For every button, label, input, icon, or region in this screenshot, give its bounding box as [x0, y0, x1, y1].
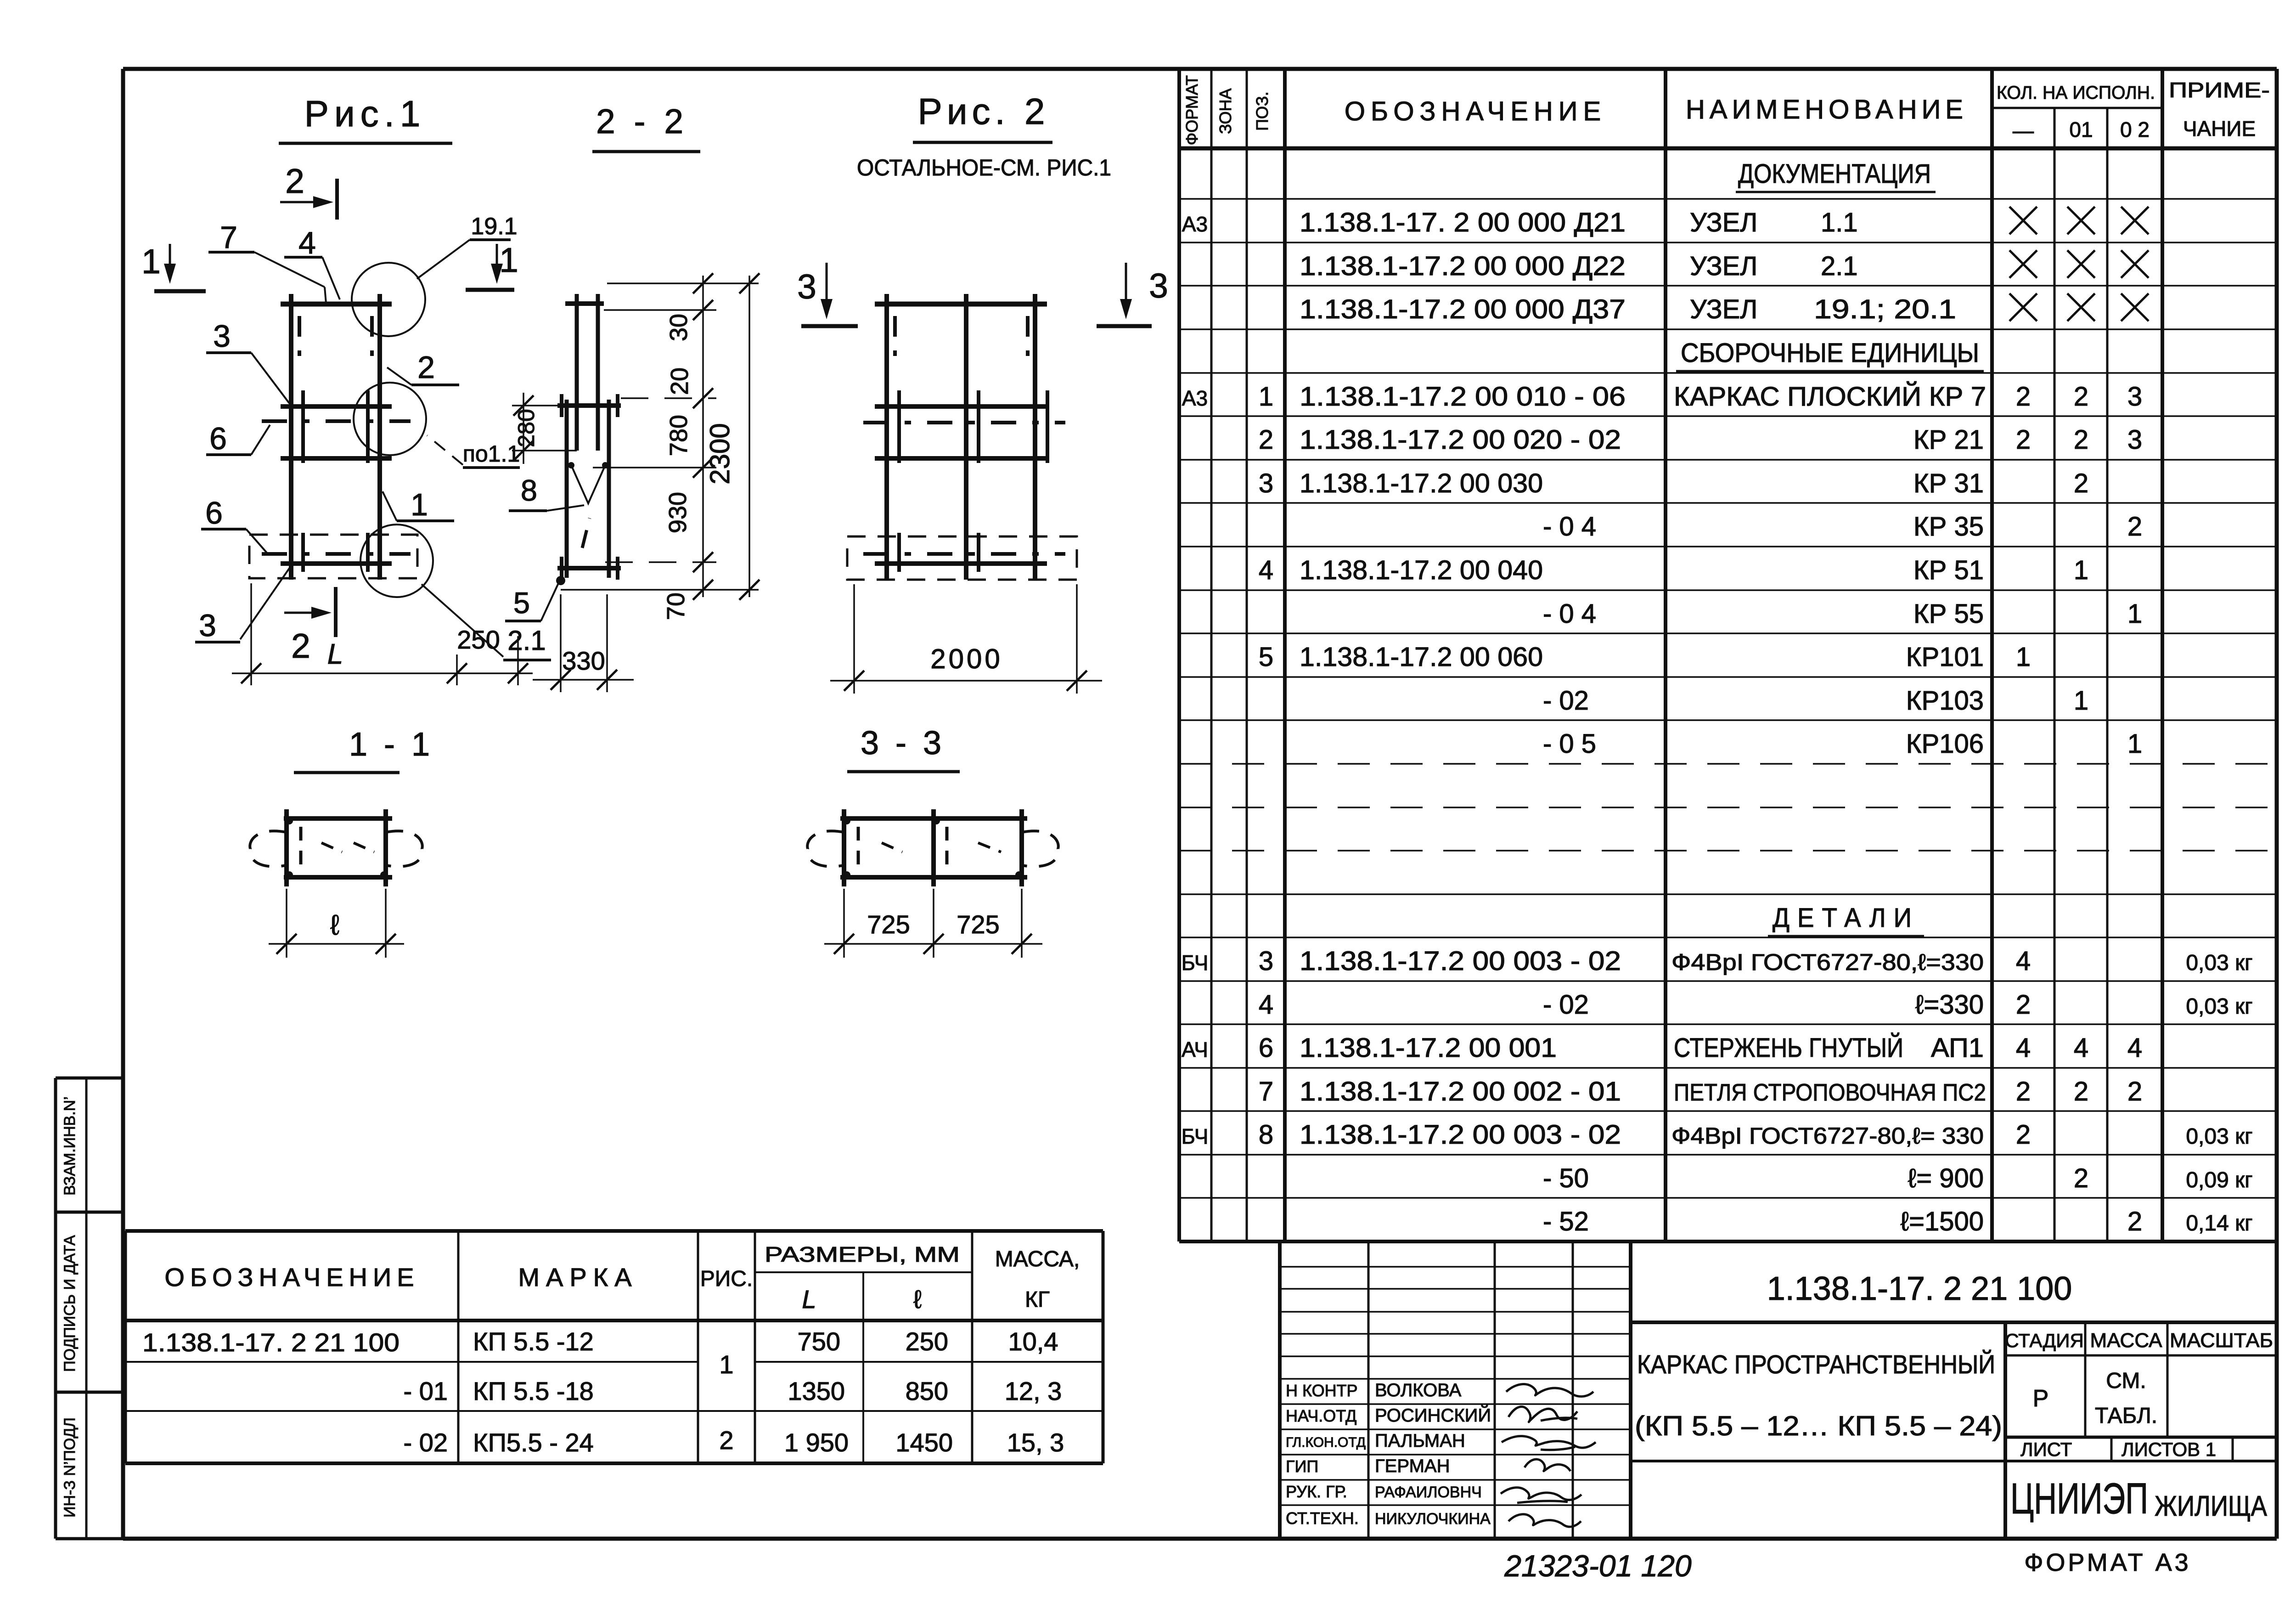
section 2-2 label 5 with leader [505, 583, 558, 621]
svg-text:КАРКАС ПЛОСКИЙ КР 7: КАРКАС ПЛОСКИЙ КР 7 [1674, 382, 1986, 412]
svg-text:ℓ= 900: ℓ= 900 [1908, 1163, 1984, 1193]
fig.1 label 3 (lower) with leader [195, 566, 291, 643]
svg-text:1.138.1-17.2 00 003 - 02: 1.138.1-17.2 00 003 - 02 [1300, 1120, 1621, 1150]
row: -52 [1543, 1207, 2253, 1236]
svg-text:280: 280 [513, 409, 539, 447]
fig.1 label 3 (upper) with leader [206, 319, 289, 403]
organization name ЦНИИЭП жилища [2010, 1474, 2268, 1523]
svg-text:0,03 кг: 0,03 кг [2186, 994, 2252, 1019]
svg-text:0,14 кг: 0,14 кг [2186, 1211, 2252, 1236]
svg-text:Ф4ВрI ГОСТ6727-80,ℓ= 330: Ф4ВрI ГОСТ6727-80,ℓ= 330 [1671, 1123, 1984, 1149]
svg-text:20: 20 [666, 367, 693, 395]
svg-text:ОСТАЛЬНОЕ-СМ. РИС.1: ОСТАЛЬНОЕ-СМ. РИС.1 [857, 155, 1111, 181]
svg-text:1.138.1-17. 2 00 000 Д21: 1.138.1-17. 2 00 000 Д21 [1300, 208, 1626, 237]
section 3-3 right hook dashed arc [1022, 831, 1058, 866]
svg-text:1 950: 1 950 [784, 1428, 849, 1457]
svg-text:0,03 кг: 0,03 кг [2186, 1124, 2252, 1149]
svg-text:0,03 кг: 0,03 кг [2186, 951, 2252, 975]
svg-text:1.138.1-17.2 00 003 - 02: 1.138.1-17.2 00 003 - 02 [1300, 946, 1621, 976]
svg-text:ПАЛЬМАН: ПАЛЬМАН [1375, 1431, 1465, 1451]
svg-text:2: 2 [2016, 382, 2031, 412]
svg-text:РУК. ГР.: РУК. ГР. [1286, 1482, 1347, 1501]
row: -04 / КР 55 [1543, 599, 2142, 629]
svg-text:НИКУЛОЧКИНА: НИКУЛОЧКИНА [1375, 1510, 1491, 1528]
bottom-left table row 1: КП5.5-12 [142, 1327, 1058, 1379]
signature squiggles [1501, 1384, 1596, 1527]
svg-text:БЧ: БЧ [1182, 951, 1209, 975]
svg-text:КР 31: КР 31 [1913, 468, 1984, 498]
fig.2 hidden dashed bars at top [895, 316, 1028, 356]
svg-text:2: 2 [2016, 990, 2031, 1020]
section 2-2 right dimension chain extension lines [561, 283, 759, 590]
fig.1 label 6 (upper) with leader [206, 421, 270, 456]
svg-text:1: 1 [141, 242, 161, 281]
svg-text:2000: 2000 [930, 643, 1002, 674]
svg-text:МАССА,: МАССА, [995, 1247, 1080, 1271]
fig.1 dash-dot line mid [262, 419, 411, 423]
svg-text:КР101: КР101 [1906, 642, 1984, 672]
fig.1 dashed line bottom [262, 552, 411, 556]
svg-text:1: 1 [1259, 382, 1273, 412]
svg-text:НАИМЕНОВАНИЕ: НАИМЕНОВАНИЕ [1686, 95, 1968, 124]
svg-text:2: 2 [2016, 425, 2031, 455]
svg-text:19.1; 20.1: 19.1; 20.1 [1814, 294, 1956, 324]
section 1-1 corner dots [286, 817, 388, 879]
title block stage/mass/scale cells [2005, 1322, 2277, 1437]
section 1-1 top bar [284, 816, 392, 821]
svg-text:15, 3: 15, 3 [1007, 1428, 1064, 1457]
svg-text:3: 3 [199, 608, 216, 643]
fig.1 label по1.1 with leader [427, 435, 520, 468]
svg-text:Рис.1: Рис.1 [304, 93, 426, 134]
svg-text:1: 1 [719, 1350, 733, 1379]
svg-text:70: 70 [662, 593, 690, 620]
svg-text:МАССА: МАССА [2090, 1329, 2163, 1352]
svg-text:ДОКУМЕНТАЦИЯ: ДОКУМЕНТАЦИЯ [1738, 159, 1931, 189]
row: КР 31 [1259, 468, 2088, 498]
section heading: Детали [1768, 903, 1924, 936]
title block document number cell [1631, 1270, 2277, 1322]
svg-text:3: 3 [1149, 266, 1168, 305]
svg-text:- 0 4: - 0 4 [1543, 599, 1596, 629]
fig.1 cage: left vertical bar [289, 294, 293, 580]
fig.1 section marker 2 (top) [280, 162, 337, 220]
svg-text:850: 850 [906, 1377, 948, 1405]
row: КР101 [1259, 642, 2031, 672]
section 2-2 top hanger bar [565, 301, 604, 306]
section 1-1 right hook dashed arc [386, 831, 422, 866]
svg-text:ПРИМЕ-: ПРИМЕ- [2169, 78, 2270, 102]
svg-text:1.138.1-17. 2 21 100: 1.138.1-17. 2 21 100 [1767, 1270, 2072, 1307]
svg-text:4: 4 [2127, 1033, 2142, 1063]
svg-text:ПОЗ.: ПОЗ. [1253, 91, 1272, 131]
fig.1 cage: right vertical bar [377, 294, 382, 580]
svg-text:10,4: 10,4 [1008, 1327, 1058, 1356]
svg-text:L: L [327, 638, 343, 670]
fig.1 section marker 2 (bottom) [284, 587, 336, 665]
section 2-2 chain labels 30 20 780 930 70 [662, 314, 693, 620]
svg-text:7: 7 [220, 220, 237, 255]
fig.1 dimension L and 250 [232, 583, 533, 685]
fig.2 cage: left vertical bar [884, 294, 889, 580]
svg-text:3: 3 [1259, 946, 1273, 976]
svg-text:КР 35: КР 35 [1913, 512, 1984, 542]
svg-text:1: 1 [2074, 555, 2088, 585]
svg-text:2: 2 [2074, 382, 2088, 412]
svg-text:ИН-З N’ПОДЛ: ИН-З N’ПОДЛ [61, 1417, 79, 1518]
svg-text:2: 2 [719, 1426, 733, 1455]
svg-text:1: 1 [411, 487, 428, 522]
row: узел 1.1 [1182, 207, 2149, 237]
svg-text:АЧ: АЧ [1182, 1038, 1208, 1061]
svg-text:2: 2 [1259, 425, 1273, 455]
svg-text:КР106: КР106 [1906, 729, 1984, 759]
fig.1 title [279, 93, 452, 143]
svg-text:6: 6 [205, 496, 223, 530]
section 3-3 left hook dashed arc [807, 831, 844, 866]
svg-text:ВОЛКОВА: ВОЛКОВА [1375, 1380, 1462, 1400]
svg-text:3: 3 [1259, 468, 1273, 498]
svg-text:3: 3 [2127, 425, 2142, 455]
section 2-2 bent wire V [568, 462, 608, 503]
fig.1 hidden dashed bars at top [299, 316, 372, 356]
svg-text:А3: А3 [1182, 212, 1208, 236]
svg-text:1450: 1450 [895, 1428, 953, 1457]
fig.1 label 4 with leader [284, 226, 340, 299]
svg-text:1: 1 [2016, 642, 2031, 672]
svg-text:- 01: - 01 [404, 1377, 448, 1405]
svg-text:1: 1 [2127, 599, 2142, 629]
fig.2 dashed line bottom [863, 552, 1065, 556]
row: -05 / КР106 [1543, 729, 2142, 759]
section 2-2 title [592, 102, 700, 152]
svg-text:—: — [2013, 119, 2034, 142]
svg-text:1.138.1-17.2 00 030: 1.138.1-17.2 00 030 [1300, 468, 1543, 498]
section 2-2 hidden dash [582, 518, 590, 548]
svg-text:- 02: - 02 [1543, 686, 1589, 716]
svg-text:2 - 2: 2 - 2 [596, 102, 688, 141]
section 3-3 bottom bar [840, 875, 1027, 880]
svg-text:1.138.1-17. 2 21 100: 1.138.1-17. 2 21 100 [142, 1328, 400, 1357]
fig.2 dim 2000 [830, 584, 1102, 694]
specification table row lines [1179, 199, 2277, 1198]
fig.2 cage: bottom bar [875, 561, 1047, 566]
row: поз.8 Ф4ВрI [1182, 1120, 2253, 1150]
section 2-2 label 8 with leader [509, 474, 584, 511]
row: поз.3 Ф4ВрI [1182, 946, 2253, 976]
svg-text:- 02: - 02 [1543, 990, 1589, 1020]
svg-text:725: 725 [957, 910, 999, 939]
svg-text:ПОДПИСЬ И ДАТА: ПОДПИСЬ И ДАТА [61, 1235, 79, 1372]
section 2-2 bottom-left dot [556, 576, 565, 585]
bottom-left table row 3: КП5.5-24 [404, 1426, 1064, 1457]
svg-text:8: 8 [1259, 1120, 1273, 1150]
fig.1 section marker 1 (left) [141, 242, 206, 291]
fig.2 cage: middle bar (lower) [875, 456, 1047, 461]
svg-text:КП 5.5 -18: КП 5.5 -18 [473, 1377, 594, 1405]
section 2-2 dim 330 [533, 594, 634, 692]
fig.1 node circle 2.1 [360, 525, 433, 597]
svg-text:ГЛ.КОН.ОТД: ГЛ.КОН.ОТД [1286, 1435, 1366, 1450]
svg-text:МАРКА: МАРКА [518, 1263, 638, 1292]
fig.1 node circle 1.1 [354, 383, 426, 455]
bottom-left marks table grid [125, 1231, 1103, 1463]
svg-text:ФОРМАТ: ФОРМАТ [1182, 75, 1201, 145]
svg-text:12, 3: 12, 3 [1005, 1377, 1062, 1405]
fig.2 lap splice bars middle [899, 390, 1047, 463]
svg-text:1.138.1-17.2 00 060: 1.138.1-17.2 00 060 [1300, 642, 1543, 672]
svg-text:2300: 2300 [704, 423, 735, 484]
svg-text:250: 250 [457, 625, 500, 654]
section 3-3 middle bar [931, 809, 936, 886]
svg-text:СБОРОЧНЫЕ ЕДИНИЦЫ: СБОРОЧНЫЕ ЕДИНИЦЫ [1681, 338, 1979, 368]
section 1-1 left bar [284, 809, 289, 886]
svg-text:4: 4 [1259, 990, 1273, 1020]
fig.1 label 2 (upper) with leader [387, 350, 459, 385]
svg-text:СМ.: СМ. [2106, 1369, 2146, 1393]
svg-text:750: 750 [798, 1327, 840, 1356]
svg-text:Н КОНТР: Н КОНТР [1286, 1381, 1358, 1400]
svg-text:2: 2 [2074, 468, 2088, 498]
svg-text:5: 5 [513, 586, 530, 620]
fig.1 label 2.1 with leader [422, 584, 551, 660]
section 3-3 right bar [1019, 809, 1024, 886]
section 1-1 title [294, 726, 433, 773]
fig.1 label 1 with leader [383, 487, 454, 522]
svg-text:ОБОЗНАЧЕНИЕ: ОБОЗНАЧЕНИЕ [164, 1263, 419, 1292]
row: -50 [1543, 1163, 2253, 1193]
footer sheet format label [2024, 1549, 2191, 1576]
section 3-3 top bar [840, 816, 1027, 821]
section 3-3 left bar [842, 809, 846, 886]
section 3-3 inner hidden dashes [858, 827, 1001, 870]
svg-text:ЛИСТ: ЛИСТ [2020, 1439, 2072, 1460]
svg-text:РАЗМЕРЫ, ММ: РАЗМЕРЫ, ММ [765, 1242, 960, 1266]
svg-text:1.1: 1.1 [1821, 208, 1858, 237]
row: каркас плоский КР 7 [1182, 382, 2142, 412]
specification table grid [1179, 69, 2277, 1241]
svg-text:УЗЕЛ: УЗЕЛ [1690, 251, 1757, 281]
fig.1 cage: top chord bar [281, 302, 392, 307]
svg-text:ℓ: ℓ [330, 909, 339, 941]
section 1-1 bottom bar [284, 875, 392, 880]
svg-text:2: 2 [2127, 512, 2142, 542]
svg-text:Р: Р [2033, 1385, 2049, 1412]
svg-text:2: 2 [2016, 1077, 2031, 1106]
svg-text:3 - 3: 3 - 3 [861, 725, 945, 762]
svg-text:Ф4ВрI ГОСТ6727-80,ℓ=330: Ф4ВрI ГОСТ6727-80,ℓ=330 [1671, 949, 1984, 975]
signature rows captions and names [1286, 1380, 1491, 1528]
svg-text:1.138.1-17.2 00 001: 1.138.1-17.2 00 001 [1300, 1033, 1557, 1063]
row: поз.4 -02 [1259, 990, 2253, 1020]
svg-text:19.1: 19.1 [471, 213, 517, 240]
svg-text:НАЧ.ОТД: НАЧ.ОТД [1286, 1406, 1356, 1425]
svg-text:725: 725 [867, 910, 910, 939]
section 3-3 title [847, 725, 960, 772]
row: узел 19.1; 20.1 [1300, 293, 2149, 324]
svg-text:КАРКАС ПРОСТРАНСТВЕННЫЙ: КАРКАС ПРОСТРАНСТВЕННЫЙ [1637, 1349, 1995, 1379]
svg-text:ГИП: ГИП [1286, 1457, 1318, 1476]
svg-text:РИС.: РИС. [700, 1267, 753, 1291]
fig.2 dash-dot line mid [863, 421, 1065, 424]
fig.2 cage: middle bar (upper) [875, 404, 1047, 409]
svg-text:КР 21: КР 21 [1913, 425, 1984, 455]
specification table headers [1182, 75, 2270, 145]
svg-text:1.138.1-17.2 00 010 - 06: 1.138.1-17.2 00 010 - 06 [1300, 382, 1626, 412]
svg-text:ℓ=330: ℓ=330 [1915, 990, 1984, 1020]
fig.1 cage: middle bar (upper) [281, 404, 392, 409]
left sidebar boxes with vertical captions [56, 1078, 123, 1539]
svg-text:- 0 5: - 0 5 [1543, 729, 1596, 759]
section 3-3 dims 725 725 [824, 889, 1042, 958]
svg-text:СТЕРЖЕНЬ ГНУТЫЙ: СТЕРЖЕНЬ ГНУТЫЙ [1674, 1033, 1903, 1063]
svg-text:2: 2 [2074, 425, 2088, 455]
svg-text:А3: А3 [1182, 386, 1208, 410]
svg-text:3: 3 [213, 319, 231, 354]
svg-text:3: 3 [2127, 382, 2142, 412]
svg-text:СТ.ТЕХН.: СТ.ТЕХН. [1286, 1509, 1359, 1528]
svg-text:01: 01 [2069, 118, 2093, 141]
svg-text:- 52: - 52 [1543, 1207, 1589, 1236]
section 2-2 box bottom bar [557, 557, 621, 580]
svg-text:1.138.1-17.2 00 020 - 02: 1.138.1-17.2 00 020 - 02 [1300, 425, 1621, 455]
svg-text:КОЛ. НА ИСПОЛН.: КОЛ. НА ИСПОЛН. [1997, 83, 2155, 103]
svg-text:ПЕТЛЯ СТРОПОВОЧНАЯ ПС2: ПЕТЛЯ СТРОПОВОЧНАЯ ПС2 [1674, 1079, 1986, 1106]
svg-text:БЧ: БЧ [1182, 1124, 1209, 1148]
svg-text:1 - 1: 1 - 1 [349, 726, 433, 763]
svg-text:КР103: КР103 [1906, 686, 1984, 716]
svg-text:4: 4 [2016, 946, 2031, 976]
svg-text:2.1: 2.1 [1821, 251, 1858, 281]
svg-text:КП5.5 - 24: КП5.5 - 24 [473, 1428, 594, 1457]
svg-text:УЗЕЛ: УЗЕЛ [1690, 294, 1757, 324]
svg-text:4: 4 [298, 226, 316, 260]
fig.1 label 19.1 with leader [417, 213, 518, 279]
svg-text:- 50: - 50 [1543, 1163, 1589, 1193]
svg-text:0 2: 0 2 [2120, 118, 2150, 141]
svg-text:21323-01 120: 21323-01 120 [1504, 1549, 1692, 1583]
svg-text:- 0 4: - 0 4 [1543, 512, 1596, 542]
row: узел 2.1 [1300, 250, 2149, 281]
svg-text:4: 4 [2074, 1033, 2088, 1063]
row: КР 51 [1259, 555, 2088, 585]
svg-text:ℓ: ℓ [913, 1285, 922, 1314]
svg-text:6: 6 [1259, 1033, 1273, 1063]
section 2-2 protruding vertical bars [577, 294, 598, 451]
fig.2 cage: right vertical bar [1033, 294, 1037, 580]
section heading: Сборочные единицы [1676, 338, 1984, 371]
title block sheet row [1631, 1437, 2277, 1461]
fig.1 node circle 19.1 [352, 263, 425, 336]
section 1-1 inner hidden dashes [301, 827, 374, 870]
svg-text:L: L [802, 1285, 816, 1314]
svg-text:1350: 1350 [788, 1377, 845, 1405]
fig.2 lap splice bars bottom [899, 533, 979, 572]
fig.1 dashed slab outline [249, 535, 417, 578]
svg-text:ГЕРМАН: ГЕРМАН [1375, 1456, 1450, 1476]
section 2-2 box top bar [557, 394, 621, 417]
svg-text:2: 2 [2074, 1163, 2088, 1193]
svg-text:330: 330 [562, 646, 605, 675]
svg-text:(КП 5.5 – 12… КП 5.5 – 24): (КП 5.5 – 12… КП 5.5 – 24) [1635, 1411, 2002, 1441]
svg-text:250: 250 [906, 1327, 948, 1356]
svg-text:2: 2 [417, 350, 435, 385]
svg-text:1.138.1-17.2 00 000 Д22: 1.138.1-17.2 00 000 Д22 [1300, 251, 1626, 281]
fig.1 section marker 1 (right) [466, 241, 518, 290]
svg-text:АП1: АП1 [1931, 1033, 1984, 1063]
svg-text:ДЕТАЛИ: ДЕТАЛИ [1773, 903, 1919, 933]
svg-text:2: 2 [2127, 1077, 2142, 1106]
svg-text:МАСШТАБ: МАСШТАБ [2170, 1329, 2273, 1352]
fig.1 lap splice bars bottom [303, 533, 368, 572]
section 1-1 right bar [383, 809, 388, 886]
title block name cell [1635, 1322, 2005, 1539]
svg-text:КГ: КГ [1025, 1287, 1050, 1312]
svg-text:1.138.1-17.2 00 000 Д37: 1.138.1-17.2 00 000 Д37 [1300, 294, 1626, 324]
fig.1 label 6 (lower) with leader [201, 496, 269, 555]
bottom-left table headers [164, 1242, 1080, 1314]
svg-text:1: 1 [2127, 729, 2142, 759]
section heading: Документация [1736, 159, 1936, 192]
svg-text:ЛИСТОВ 1: ЛИСТОВ 1 [2122, 1439, 2216, 1460]
svg-text:2: 2 [2074, 1077, 2088, 1106]
svg-text:7: 7 [1259, 1077, 1273, 1106]
svg-text:780: 780 [665, 415, 692, 456]
svg-text:930: 930 [664, 492, 692, 533]
fig.1 cage: bottom bar [281, 561, 392, 566]
svg-text:6: 6 [209, 421, 227, 456]
fig.1 label 7 with leader [208, 220, 326, 303]
section 1-1 left hook dashed arc [250, 831, 287, 866]
fig.2 cage: top chord bar [875, 302, 1047, 307]
svg-text:ВЗАМ.ИНВ.N’: ВЗАМ.ИНВ.N’ [61, 1096, 79, 1196]
svg-text:ЧАНИЕ: ЧАНИЕ [2183, 117, 2256, 141]
section 3-3 corner dots [843, 817, 1023, 879]
svg-text:СТАДИЯ: СТАДИЯ [2005, 1330, 2084, 1351]
section 2-2 dim 280 [512, 393, 577, 464]
fig.2 dashed slab outline [847, 536, 1077, 580]
svg-text:ЖИЛИЩА: ЖИЛИЩА [2155, 1490, 2268, 1522]
svg-text:по1.1: по1.1 [463, 441, 520, 467]
svg-text:2: 2 [291, 626, 310, 665]
svg-text:1: 1 [2074, 686, 2088, 716]
svg-text:Рис. 2: Рис. 2 [918, 91, 1050, 132]
section 1-1 dim ell [269, 889, 404, 958]
footer handwritten number [1504, 1549, 1692, 1583]
svg-text:4: 4 [2016, 1033, 2031, 1063]
svg-text:ТАБЛ.: ТАБЛ. [2095, 1404, 2157, 1428]
svg-text:8: 8 [521, 474, 537, 507]
svg-text:2.1: 2.1 [507, 625, 546, 656]
svg-text:1.138.1-17.2 00 040: 1.138.1-17.2 00 040 [1300, 555, 1543, 585]
row: -04 / КР 35 [1543, 512, 2142, 542]
svg-text:4: 4 [1259, 555, 1273, 585]
fig.2 section marker 3 (left) [797, 263, 858, 326]
svg-text:РАФАИЛОВНЧ: РАФАИЛОВНЧ [1375, 1484, 1482, 1501]
svg-text:КР 51: КР 51 [1913, 555, 1984, 585]
svg-text:КР 55: КР 55 [1913, 599, 1984, 629]
svg-text:30: 30 [665, 314, 692, 341]
svg-text:УЗЕЛ: УЗЕЛ [1690, 208, 1757, 237]
svg-text:2: 2 [2016, 1120, 2031, 1150]
fig.1 lap splice bars middle [303, 390, 368, 463]
svg-text:ЗОНА: ЗОНА [1216, 88, 1235, 134]
svg-text:ОБОЗНАЧЕНИЕ: ОБОЗНАЧЕНИЕ [1345, 96, 1606, 126]
svg-text:- 02: - 02 [404, 1428, 448, 1457]
svg-text:ЦНИИЭП: ЦНИИЭП [2010, 1474, 2148, 1523]
row: поз.6 стержень гнутый [1182, 1033, 2142, 1063]
bottom-left table row 2: КП5.5-18 [404, 1377, 1062, 1405]
